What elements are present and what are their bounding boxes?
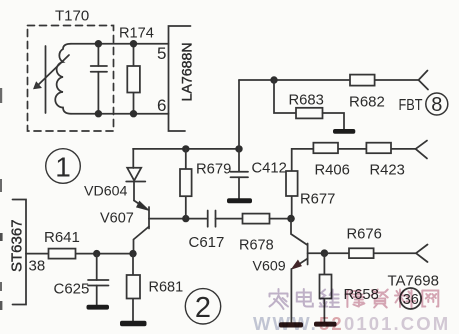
- node: C412 top junction: [235, 145, 242, 152]
- resistor R406: [313, 143, 338, 154]
- wire R677 top rail to connector: [292, 149, 416, 171]
- svg-text:0101.COM: 0101.COM: [344, 313, 450, 334]
- wire C617 to R678: [216, 218, 243, 220]
- svg-text:R406: R406: [315, 163, 350, 179]
- ground (C625): [87, 305, 110, 310]
- connector (R676 output): [416, 245, 428, 263]
- watermark line 2: WWW.520101.COM: [253, 313, 450, 334]
- svg-text:R677: R677: [300, 192, 335, 208]
- wire main bus y=149: [133, 148, 239, 150]
- node: base/R676 junction: [321, 249, 329, 257]
- resistor R683: [274, 80, 296, 113]
- wire V607 base to C617: [149, 218, 208, 220]
- node: R679 top junction: [182, 145, 189, 152]
- resistor R681: [132, 254, 134, 321]
- transformer adjust arrow: [36, 55, 70, 88]
- resistor R641: [49, 249, 76, 259]
- svg-text:FBT: FBT: [399, 97, 423, 114]
- node: cap bottom junction: [95, 110, 102, 117]
- svg-text:1: 1: [55, 152, 71, 183]
- circled pin 8 (FBT): [426, 93, 448, 115]
- transistor V607: [148, 207, 150, 229]
- svg-text:ST6367: ST6367: [9, 219, 26, 272]
- svg-text:TA7698: TA7698: [388, 273, 439, 290]
- svg-text:52: 52: [319, 313, 344, 334]
- svg-text:LA7688N: LA7688N: [180, 42, 196, 101]
- svg-text:5: 5: [157, 44, 166, 63]
- svg-text:8: 8: [431, 94, 442, 116]
- svg-text:R681: R681: [149, 280, 184, 296]
- resistor R677: [291, 171, 293, 219]
- svg-text:WWW.: WWW.: [253, 313, 318, 334]
- svg-text:R676: R676: [347, 227, 382, 243]
- resistor R658: [323, 253, 325, 321]
- edge artifact marks: [0, 88, 2, 103]
- resistor R423: [366, 143, 391, 154]
- svg-text:R682: R682: [349, 94, 385, 111]
- transformer T170 dashed box: [28, 26, 114, 132]
- circled pin 36 (TA7698): [400, 288, 421, 309]
- svg-text:38: 38: [29, 258, 46, 275]
- ground (R681): [120, 321, 147, 326]
- resistor R679: [185, 149, 187, 219]
- node: R174 bottom: [130, 110, 137, 117]
- ground (C412): [227, 198, 252, 203]
- resistor R682: [350, 75, 375, 86]
- connector to FBT: [419, 71, 429, 90]
- wire bus up to top rail: [238, 80, 240, 149]
- svg-text:R174: R174: [119, 26, 154, 42]
- svg-text:R423: R423: [370, 163, 405, 179]
- svg-text:VD604: VD604: [84, 184, 127, 200]
- transistor V609: [291, 219, 307, 245]
- node: R677/R678 junction: [287, 215, 295, 223]
- node: C625 junction: [93, 250, 100, 257]
- wire coil top to IC pin5: [71, 43, 169, 45]
- ground (V609 emitter): [279, 322, 303, 327]
- svg-text:R678: R678: [239, 238, 274, 254]
- wire coil bottom to IC pin6: [71, 113, 169, 115]
- svg-text:C617: C617: [189, 234, 225, 251]
- node: R679 bottom junction: [182, 215, 189, 222]
- resistor R174: [133, 44, 135, 114]
- resistor R676: [324, 252, 416, 254]
- capacitor C625: [96, 254, 98, 280]
- node: R174 top: [130, 40, 137, 47]
- transformer coil winding: [55, 44, 71, 114]
- capacitor C412: [238, 149, 240, 172]
- ground (R683): [333, 129, 355, 134]
- svg-text:R641: R641: [44, 229, 80, 246]
- diode VD604: [132, 149, 134, 168]
- wire top rail to FBT connector: [239, 79, 419, 81]
- node: coil top / cap junction: [95, 40, 102, 47]
- pin 38 wire: [26, 253, 133, 255]
- node: R683 tap junction: [270, 76, 277, 83]
- connector (R423 output): [416, 141, 427, 159]
- svg-text:6: 6: [157, 96, 166, 115]
- op-amp IC LA7688N partial outline: [169, 26, 191, 131]
- resistor R678: [243, 214, 270, 224]
- circled node 1: [46, 149, 81, 184]
- IC ST6367 partial outline: [13, 200, 27, 305]
- svg-text:V607: V607: [100, 211, 134, 227]
- svg-text:R679: R679: [196, 162, 231, 178]
- transformer core line: [45, 46, 47, 113]
- capacitor (tank, unlabeled): [97, 44, 99, 66]
- svg-text:V609: V609: [253, 259, 286, 275]
- wire V609 emitter to ground: [290, 269, 292, 322]
- svg-text:T170: T170: [55, 8, 89, 25]
- svg-text:C412: C412: [252, 161, 287, 177]
- circled node 2: [185, 289, 220, 324]
- capacitor C617: [207, 211, 209, 227]
- svg-text:C625: C625: [54, 281, 90, 298]
- watermark line 1: 家电维修资料网 (hand-drawn strokes): [270, 289, 439, 309]
- node: V607 collector junction: [129, 250, 136, 257]
- svg-text:2: 2: [195, 292, 211, 324]
- ground (R658): [314, 322, 337, 327]
- svg-text:R683: R683: [289, 93, 324, 109]
